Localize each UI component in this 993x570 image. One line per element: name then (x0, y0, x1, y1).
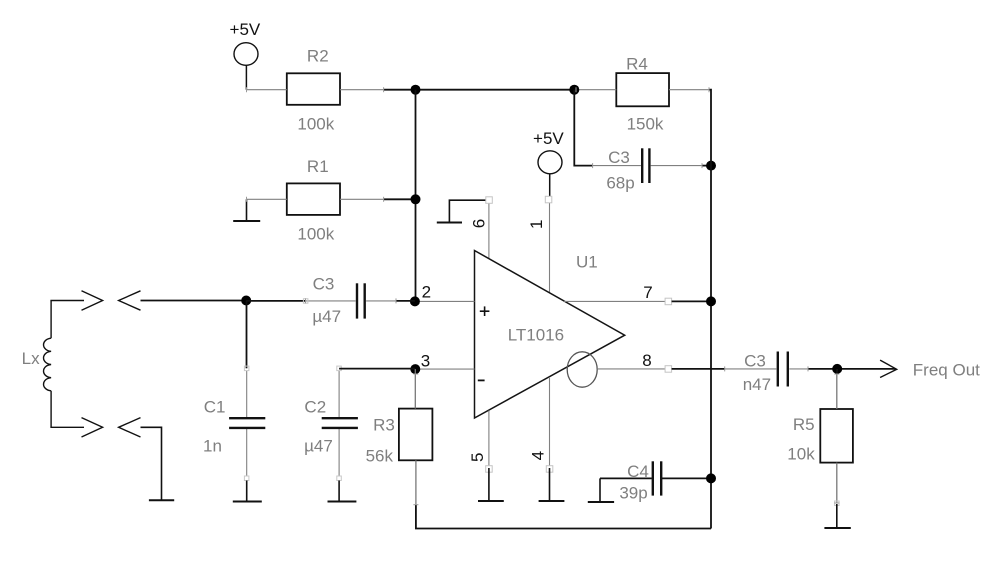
svg-text:10k: 10k (787, 445, 815, 464)
svg-text:Freq Out: Freq Out (913, 361, 980, 380)
connector arrow left (bottom) (119, 418, 141, 437)
wire R1 to node B (384, 198, 416, 200)
svg-text:C3: C3 (744, 352, 766, 371)
wire R2 to node A (384, 89, 576, 91)
svg-text:7: 7 (643, 283, 652, 302)
wire node H to C3 u47 (246, 300, 306, 302)
node G junction dot (pin7/bus) (706, 296, 716, 306)
wire n47 to output arrow (808, 368, 896, 370)
capacitor C3 (n47) (725, 352, 808, 387)
svg-text:+5V: +5V (533, 129, 564, 148)
resistor R5 (820, 369, 853, 506)
connector arrow right (bottom) (82, 418, 103, 437)
resistor R2 (247, 73, 384, 105)
svg-text:U1: U1 (576, 252, 598, 271)
node E junction dot (pin2) (410, 296, 420, 306)
svg-text:C2: C2 (304, 398, 326, 417)
node F junction dot (pin3) (410, 364, 420, 374)
capacitor C3 (u47) (303, 283, 396, 318)
wire connector to node H (141, 300, 247, 302)
plus input marker (480, 306, 490, 316)
svg-text:100k: 100k (297, 115, 334, 134)
wire node A down to node B (415, 90, 417, 302)
svg-text:5: 5 (468, 453, 487, 462)
pin 8 stub (597, 368, 665, 370)
power +5V supply symbol (top left) (230, 20, 261, 90)
node C junction dot (R4 left / C3 branch) (569, 85, 579, 95)
ground (C1) (233, 501, 262, 503)
ground (pin 6) (437, 200, 486, 222)
wire C2 top to node F (339, 368, 415, 370)
svg-text:56k: 56k (366, 447, 394, 466)
ground (C2) (328, 501, 357, 503)
capacitor C4 (600, 461, 711, 495)
pin 2 stub (416, 300, 475, 302)
svg-text:8: 8 (642, 351, 651, 370)
capacitor C3 (68p) (593, 148, 702, 183)
ground (pin 4) (539, 468, 565, 501)
connector arrow right (top) (82, 291, 103, 310)
svg-text:39p: 39p (619, 484, 647, 503)
svg-text:C3: C3 (608, 148, 630, 167)
svg-text:+5V: +5V (230, 20, 261, 39)
ground (C4) (588, 501, 614, 503)
wire C3 68p to right bus node D (702, 165, 711, 167)
node H junction dot (C1 top) (241, 296, 251, 306)
wire node C down and right to C3 68p (574, 90, 592, 166)
wire R5 to ground (836, 504, 838, 527)
ground (pin 5) (478, 468, 504, 501)
minus input marker (478, 379, 485, 381)
node B junction dot (411, 194, 421, 204)
wire C4 left down to ground (599, 478, 601, 501)
wire bottom connector to ground (141, 427, 162, 499)
resistor R1 (247, 183, 384, 215)
svg-text:3: 3 (421, 351, 430, 370)
wire pin8 to C3 n47 (672, 368, 725, 370)
pin 7 stub (564, 300, 665, 302)
ground (R5) (824, 527, 850, 529)
pin square pin8 (665, 366, 672, 373)
pin square pin6 (486, 197, 493, 204)
svg-text:R2: R2 (307, 47, 329, 66)
node J junction dot (R5 tap) (832, 364, 842, 374)
connector arrow left (top) (119, 291, 141, 310)
inductor Lx (44, 301, 52, 428)
node I junction dot (C4/bus) (706, 473, 716, 483)
svg-text:R5: R5 (793, 415, 815, 434)
power +5V supply symbol (pin 1) (533, 129, 564, 196)
svg-text:6: 6 (470, 219, 489, 228)
svg-text:n47: n47 (743, 375, 771, 394)
inversion bubble on pin 8 (567, 352, 597, 387)
svg-text:R3: R3 (373, 416, 395, 435)
ground (bottom connector) (149, 499, 174, 501)
wire C1 to ground (246, 481, 248, 501)
svg-text:4: 4 (529, 451, 548, 460)
pin square pin1 (545, 196, 552, 203)
wire Lx bottom to connector (50, 426, 84, 428)
node D junction dot (706, 161, 716, 171)
svg-text:2: 2 (422, 283, 431, 302)
ground (left of R1) (233, 199, 260, 221)
pin 4 stub (549, 377, 551, 466)
pin 3 stub (415, 368, 474, 370)
op-amp U1 comparator LT1016 triangle (475, 251, 625, 419)
pin junction tick marks (247, 87, 840, 505)
pin 6 stub (488, 203, 490, 259)
pin 5 stub (488, 411, 490, 466)
svg-text:R4: R4 (626, 55, 648, 74)
pin 1 stub (549, 203, 551, 293)
wire pin7 to bus (672, 300, 711, 302)
svg-text:LT1016: LT1016 (508, 326, 564, 345)
svg-text:C3: C3 (313, 275, 335, 294)
resistor R3 (399, 369, 433, 505)
wire C2 to ground (338, 481, 340, 501)
capacitor C1 (229, 366, 265, 480)
svg-text:100k: 100k (297, 225, 334, 244)
capacitor C2 (322, 366, 358, 480)
svg-text:C1: C1 (204, 398, 226, 417)
wire C3 u47 to node E (396, 300, 415, 302)
wire right vertical bus (R4 output down to bottom) (709, 90, 711, 529)
svg-text:1: 1 (527, 220, 546, 229)
svg-text:µ47: µ47 (312, 307, 341, 326)
svg-text:R1: R1 (307, 157, 329, 176)
svg-text:µ47: µ47 (304, 437, 333, 456)
svg-text:1n: 1n (203, 437, 222, 456)
pin square pin5 (486, 466, 493, 473)
pin square pin4 (546, 466, 553, 473)
node A junction dot (411, 85, 421, 95)
resistor R4 (576, 73, 709, 106)
wire Lx top to connector (50, 300, 84, 302)
output arrow head (880, 360, 897, 377)
wire node H down to C1 (246, 301, 248, 369)
svg-text:Lx: Lx (22, 349, 40, 368)
svg-text:C4: C4 (627, 462, 649, 481)
pin square pin7 (665, 298, 672, 305)
svg-text:150k: 150k (627, 115, 664, 134)
wire R3 bottom along bottom to bus (416, 505, 711, 529)
svg-text:68p: 68p (606, 174, 634, 193)
